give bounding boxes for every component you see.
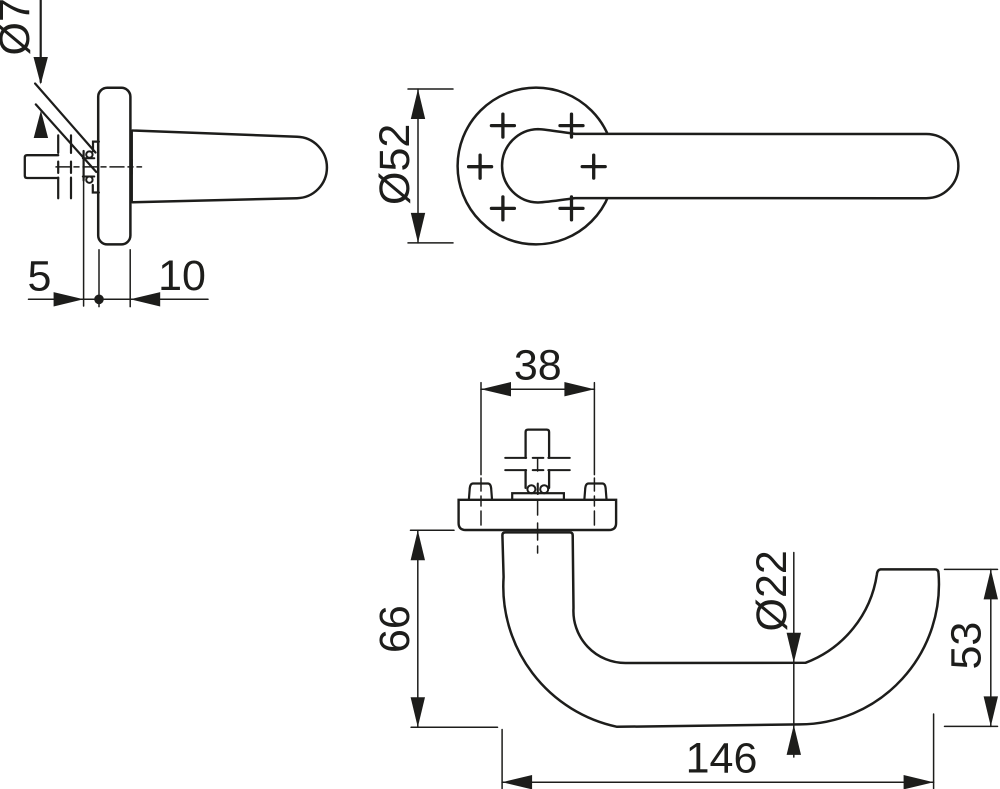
spindle cross line 2 — [505, 469, 570, 471]
screw cross bottom-right — [560, 197, 583, 220]
bearing plate edge A — [57, 135, 59, 198]
clip dome top — [86, 151, 92, 157]
hub front face — [82, 151, 84, 180]
53 extension line top — [945, 568, 998, 570]
grub hole edge diagonal 1 — [35, 84, 95, 153]
66 arrowhead up — [411, 530, 425, 560]
bearing plate (bottom view) — [512, 493, 564, 500]
Ø52 extension tick top — [408, 88, 453, 90]
38 extension / screw centerline right — [593, 383, 595, 525]
spindle (side view) — [25, 155, 58, 178]
main vertical centerline — [537, 459, 539, 553]
screw cross right — [582, 155, 605, 178]
38 dimension line — [481, 388, 594, 390]
spindle clip lobe right — [540, 485, 548, 493]
rose (side view) — [98, 88, 130, 245]
Ø52 arrowhead up — [411, 89, 425, 119]
Ø7 dimension line vertical — [40, 0, 42, 82]
svg-text:10: 10 — [158, 252, 206, 300]
Ø22 dimension line upper — [793, 553, 795, 758]
svg-text:38: 38 — [514, 342, 562, 390]
Ø52 extension tick bottom — [408, 242, 453, 244]
screw cross top-right — [560, 114, 583, 137]
grip (side view) — [132, 130, 327, 202]
spindle clip lobe left — [527, 485, 535, 493]
66 arrowhead down — [411, 697, 425, 727]
arrow left at 10 — [130, 292, 160, 306]
Ø7 arrowhead down — [34, 57, 48, 85]
spindle cross line 1 — [505, 457, 570, 459]
53 arrowhead up — [984, 569, 998, 599]
146 arrowhead right — [904, 775, 934, 789]
Ø52 dimension line — [417, 89, 419, 243]
spindle (bottom view) — [526, 430, 550, 488]
extension line rose front face — [129, 250, 131, 307]
screw cross bottom-left — [491, 197, 514, 220]
hub step bracket top — [93, 142, 99, 152]
svg-text:Ø52: Ø52 — [371, 124, 419, 205]
53 dimension line — [990, 569, 992, 726]
centerline horizontal (side view) — [56, 166, 142, 168]
38 arrowhead left — [481, 382, 511, 396]
svg-text:Ø22: Ø22 — [748, 550, 796, 631]
screw cross left — [469, 155, 492, 178]
extension line hub face — [83, 180, 85, 306]
svg-text:66: 66 — [371, 605, 419, 653]
boundary dot — [94, 295, 104, 305]
grub hole edge diagonal 2 — [36, 104, 96, 171]
arrow right at 5 — [54, 292, 84, 306]
Ø22 arrowhead up — [787, 725, 801, 755]
53 arrowhead down — [984, 696, 998, 726]
bearing plate edge B — [70, 135, 72, 198]
146 dimension line — [502, 781, 933, 783]
Ø7 arrowhead up — [34, 111, 48, 139]
Ø52 arrowhead down — [411, 213, 425, 243]
screw left — [469, 484, 492, 500]
146 arrowhead left — [502, 775, 532, 789]
extension line rose back face — [98, 250, 100, 307]
66 extension line bottom — [411, 726, 497, 728]
66 extension line top — [411, 529, 455, 531]
38 extension / screw centerline left — [480, 383, 482, 525]
svg-text:146: 146 — [686, 735, 758, 783]
66 dimension line — [417, 530, 419, 727]
handle front view outline — [502, 129, 958, 202]
rose circle — [458, 88, 615, 245]
38 arrowhead right — [564, 382, 594, 396]
svg-text:5: 5 — [28, 252, 52, 300]
hub step bracket bottom — [93, 185, 99, 193]
svg-text:53: 53 — [943, 622, 991, 670]
146 extension line right — [933, 714, 935, 789]
handle outline (bottom view) — [502, 532, 939, 726]
53 extension line bottom — [945, 725, 998, 727]
spindle clip center pin — [537, 484, 539, 495]
dimension line 5 / 10 — [29, 298, 209, 300]
svg-text:Ø7: Ø7 — [0, 0, 39, 56]
hub horizontal edges — [83, 158, 95, 176]
Ø22 arrowhead down — [787, 633, 801, 663]
screw cross top-left — [491, 114, 514, 137]
clip dome bottom — [86, 177, 92, 183]
rose (bottom view) — [459, 500, 616, 530]
146 extension line left — [501, 730, 503, 789]
centerline tick vertical at grip face — [131, 160, 133, 175]
screw right — [584, 484, 606, 500]
